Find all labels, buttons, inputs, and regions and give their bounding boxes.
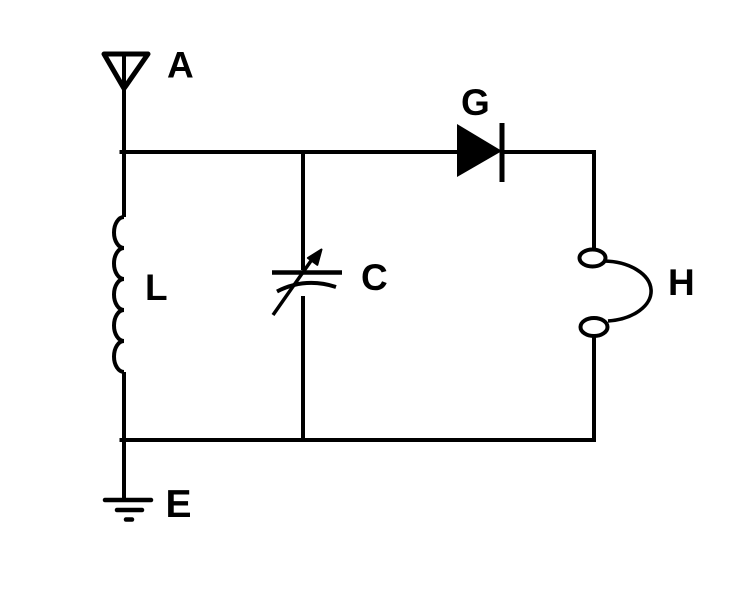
svg-text:C: C xyxy=(361,257,388,298)
svg-text:A: A xyxy=(167,45,194,86)
svg-text:L: L xyxy=(145,267,168,308)
svg-text:H: H xyxy=(668,262,695,303)
svg-text:E: E xyxy=(166,483,192,526)
svg-text:G: G xyxy=(461,82,490,123)
